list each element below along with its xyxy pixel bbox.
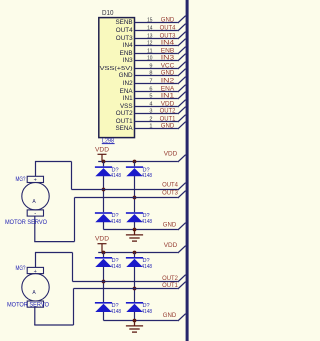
svg-text:SENA: SENA [115,125,133,132]
wire OUT3 line [75,197,178,199]
svg-text:D10: D10 [102,8,114,17]
svg-text:OUT3: OUT3 [162,189,178,196]
diode D? lower column 2 (4148) [126,302,143,304]
svg-text:3: 3 [149,109,152,115]
wire pin 6 stub [135,91,178,93]
wire OUT1 off-sheet diagonal [178,282,186,289]
svg-text:4148: 4148 [111,173,122,179]
wire pin 9 stub [135,68,178,70]
svg-text:7: 7 [149,79,152,85]
junction column 2 output node [133,196,137,200]
wire pin 10 stub [135,60,178,62]
motor plus terminal box [27,176,43,182]
svg-text:9: 9 [149,64,152,70]
junction column 2 output node [133,287,137,291]
svg-text:2: 2 [149,117,152,123]
sheet border [186,0,189,341]
wire pin 2 off-sheet diagonal [178,115,186,122]
wire VDD rail [98,161,178,163]
svg-text:4148: 4148 [142,264,153,270]
svg-text:OUT4: OUT4 [162,182,178,189]
wire pin 3 stub [135,113,178,115]
svg-text:IN3: IN3 [123,57,133,64]
svg-text:5: 5 [149,94,152,100]
junction VDD rail / column2 [133,160,137,164]
svg-text:ENA: ENA [120,88,134,95]
wire pin 14 off-sheet diagonal [178,24,186,31]
wire pin 4 off-sheet diagonal [178,100,186,107]
diode D? lower column 1 (4148) [95,212,112,214]
wire column 2 mid [134,176,136,212]
diode D? lower column 2 (4148) [126,212,143,214]
svg-text:4148: 4148 [111,264,122,270]
wire column 2 riser [134,253,136,258]
svg-text:MG?: MG? [16,176,26,183]
wire column 2 mid [134,267,136,302]
wire GND rail off-sheet diagonal [178,314,186,321]
motor body circle [22,183,49,210]
junction VDD rail / column1 [102,251,106,255]
diode D? upper column 1 (4148) [95,257,112,259]
wire motor top lead [35,162,37,177]
svg-text:IN1: IN1 [161,93,175,100]
svg-text:13: 13 [147,34,152,40]
wire motor bottom lead [34,307,36,325]
svg-text:OUT2: OUT2 [116,110,133,117]
wire pin 11 stub [135,53,178,55]
svg-text:VDD: VDD [95,236,109,243]
svg-text:MG?: MG? [16,265,26,272]
svg-text:ENA: ENA [161,86,176,93]
wire pin 14 stub [135,30,178,32]
wire pin 11 off-sheet diagonal [178,47,186,54]
svg-text:OUT1: OUT1 [162,282,178,289]
svg-text:ENB: ENB [120,50,133,57]
wire pin 12 off-sheet diagonal [178,39,186,46]
svg-text:VDD: VDD [95,146,109,153]
wire column 1 to gnd rail [103,222,105,230]
wire motor top lead [35,253,37,268]
svg-text:4148: 4148 [111,309,122,315]
wire pin 2 stub [135,121,178,123]
svg-text:4: 4 [149,102,152,108]
svg-text:OUT4: OUT4 [160,25,176,32]
svg-text:4148: 4148 [142,309,153,315]
svg-text:OUT2: OUT2 [162,275,178,282]
wire pin 4 stub [135,106,178,108]
wire motor bottom lead [34,216,36,242]
svg-text:IN2: IN2 [161,78,175,85]
svg-text:15: 15 [147,18,152,24]
svg-text:IN4: IN4 [161,40,175,47]
svg-text:OUT4: OUT4 [116,27,133,34]
junction gnd rail / ground stem [133,228,137,232]
wire pin 12 stub [135,45,178,47]
wire column 1 mid [103,267,105,302]
svg-text:OUT1: OUT1 [116,118,133,125]
svg-text:VDD: VDD [164,242,178,249]
svg-text:8: 8 [149,71,152,77]
wire pin 8 stub [135,75,178,77]
wire pin 10 off-sheet diagonal [178,54,186,61]
svg-text:IN4: IN4 [123,42,133,49]
svg-text:10: 10 [147,56,152,62]
wire pin 7 off-sheet diagonal [178,77,186,84]
wire VDD rail [98,252,178,254]
diode D? upper column 1 (4148) [95,166,112,168]
wire column 1 mid [103,176,105,212]
svg-text:ENB: ENB [161,48,175,55]
svg-text:IN3: IN3 [161,55,175,62]
wire column 1 to gnd rail [103,312,105,321]
svg-text:OUT3: OUT3 [160,33,176,40]
svg-text:4148: 4148 [111,219,122,225]
svg-text:OUT1: OUT1 [160,116,176,123]
IC D10 (L298 driver) body [99,18,135,138]
wire OUT4 line [72,189,178,191]
wire pin 5 stub [135,98,178,100]
wire column 2 to gnd rail [134,222,136,230]
svg-text:GND: GND [163,312,177,319]
wire pin 5 off-sheet diagonal [178,92,186,99]
wire pin 7 stub [135,83,178,85]
wire pin 1 stub [135,128,178,130]
diode D? upper column 2 (4148) [126,166,143,168]
motor minus terminal box [27,210,43,216]
wire pin 13 off-sheet diagonal [178,32,186,39]
motor minus terminal box [27,301,43,307]
motor plus terminal box [27,267,43,273]
svg-text:1: 1 [149,124,152,130]
ground symbol [126,321,143,333]
svg-text:GND: GND [161,123,175,130]
diode D? lower column 1 (4148) [95,302,112,304]
wire pin 9 off-sheet diagonal [178,62,186,69]
svg-text:GND: GND [161,17,175,24]
svg-text:VCC: VCC [161,63,175,70]
wire pin 13 stub [135,38,178,40]
svg-text:OUT3: OUT3 [116,35,133,42]
wire pin 6 off-sheet diagonal [178,85,186,92]
junction column 1 output node [102,280,106,284]
svg-text:GND: GND [161,70,175,77]
wire OUT3 off-sheet diagonal [178,191,186,198]
svg-text:MOTOR SERVO: MOTOR SERVO [5,219,47,226]
wire GND rail off-sheet diagonal [178,223,186,230]
svg-text:OUT2: OUT2 [160,108,176,115]
svg-text:GND: GND [119,72,133,79]
svg-text:VDD: VDD [164,150,178,157]
diode D? upper column 2 (4148) [126,257,143,259]
motor body circle [22,274,49,301]
svg-text:GND: GND [163,222,177,229]
junction column 1 output node [102,188,106,192]
wire column 2 to gnd rail [134,312,136,321]
wire OUT2 off-sheet diagonal [178,275,186,282]
svg-text:SENB: SENB [115,19,132,26]
wire pin 3 off-sheet diagonal [178,107,186,114]
svg-text:IN1: IN1 [123,95,133,102]
wire VDD rail off-sheet diagonal [178,155,186,162]
svg-text:VSS: VSS [120,103,133,110]
wire pin 15 stub [135,22,178,24]
wire column 2 riser [134,162,136,167]
wire GND rail [104,320,178,322]
wire column 1 riser [103,253,105,258]
junction VDD rail / column1 [102,160,106,164]
junction VDD rail / column2 [133,251,137,255]
wire OUT1 line [74,288,178,290]
svg-text:VDD: VDD [161,101,175,108]
svg-text:4148: 4148 [142,219,153,225]
svg-text:4148: 4148 [142,173,153,179]
svg-text:14: 14 [147,26,152,32]
svg-text:11: 11 [147,49,152,55]
wire VDD rail off-sheet diagonal [178,246,186,253]
wire pin 8 off-sheet diagonal [178,69,186,76]
svg-text:12: 12 [147,41,152,47]
wire GND rail [104,229,178,231]
wire OUT2 line [73,281,178,283]
svg-text:MOTOR SERVO: MOTOR SERVO [7,302,49,309]
junction gnd rail / ground stem [133,319,137,323]
wire OUT4 off-sheet diagonal [178,183,186,190]
svg-text:6: 6 [149,87,152,93]
wire column 1 riser [103,162,105,167]
wire pin 15 off-sheet diagonal [178,16,186,23]
wire pin 1 off-sheet diagonal [178,122,186,129]
svg-text:IN2: IN2 [123,80,133,87]
ground symbol [126,230,143,242]
